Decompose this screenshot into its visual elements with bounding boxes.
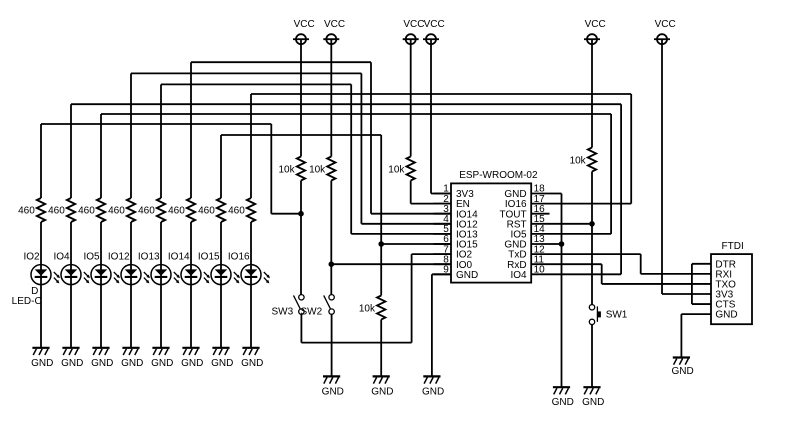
svg-text:SW2: SW2	[301, 306, 323, 317]
node IO5 label	[83, 252, 100, 263]
svg-text:ESP-WROOM-02: ESP-WROOM-02	[459, 170, 538, 181]
svg-text:10k: 10k	[359, 304, 376, 315]
wire: 10k down to RST node	[591, 172, 593, 224]
wire: FTDI GND to ground	[681, 314, 711, 357]
wire: LED to ground (IO5)	[100, 275, 102, 348]
svg-text:GND: GND	[371, 386, 393, 397]
pin 10 IO4 (right)	[510, 265, 549, 281]
wire: resistor to LED (IO13)	[160, 222, 162, 275]
FTDI pin RXI	[715, 269, 732, 280]
svg-text:10k: 10k	[309, 165, 326, 176]
wire: LED to ground (IO12)	[130, 275, 132, 348]
pin 14 IO5 (right)	[510, 224, 549, 240]
ground (below LED IO4)	[61, 348, 83, 369]
svg-text:GND: GND	[322, 386, 344, 397]
resistor 460 (IO12 column)	[108, 198, 135, 222]
svg-text:460: 460	[228, 205, 245, 216]
wire: IO2-LED bus (col1 to SW3 node) horizontal	[41, 123, 271, 125]
wire: IO16 bus (col8 to pin17) horizontal	[251, 93, 631, 95]
FTDI pin CTS	[715, 300, 735, 311]
wire: LED to ground (IO14)	[190, 275, 192, 348]
wire: VCC to 10k (RST)	[591, 39, 593, 147]
wire: IO0 node to pin 8	[331, 263, 451, 265]
svg-text:GND: GND	[211, 358, 233, 369]
svg-text:GND: GND	[181, 358, 203, 369]
wire: FTDI DTR-CTS jumper	[692, 264, 711, 304]
ground (below SW2)	[322, 376, 344, 397]
wire: IO15 node to pin 6	[381, 243, 451, 245]
wire: IO4 route right of IC down to pin 10	[550, 104, 622, 274]
switch SW1 (pushbutton)	[589, 305, 628, 325]
wire: 10k to pin 2 (EN)	[411, 181, 451, 204]
pin 1 3V3 (left)	[434, 184, 475, 200]
wire: resistor to LED (IO12)	[130, 222, 132, 275]
ground (below pin 9)	[422, 376, 444, 397]
power VCC (3V3 pin 1)	[423, 19, 445, 44]
resistor 10k pull-up (EN)	[388, 157, 415, 181]
wire: pin 11 RxD to FTDI TXO	[550, 264, 712, 284]
wire: LED to ground (IO2)	[40, 275, 42, 348]
junction: IO15 node at pin 6 row	[378, 241, 384, 247]
power VCC (RST pull-up)	[584, 19, 606, 44]
power VCC (EN pull-up)	[403, 19, 425, 44]
node IO4 label	[53, 252, 70, 263]
ground (below LED IO13)	[151, 348, 173, 369]
svg-text:GND: GND	[422, 386, 444, 397]
junction: IO0 node at pin 8 row	[329, 261, 335, 267]
wire: IO15 bus drop to pin 6	[380, 135, 382, 244]
wire: bus drop into LED column IO4	[70, 104, 72, 198]
svg-text:GND: GND	[91, 358, 113, 369]
svg-text:460: 460	[168, 205, 185, 216]
wire: IO12 bus (col4 to pin4) horizontal	[131, 72, 361, 74]
wire: bus drop into LED column IO2	[40, 124, 42, 198]
svg-text:IO14: IO14	[168, 252, 190, 263]
LED D designator and part name LED-C	[12, 286, 42, 307]
svg-text:IO2: IO2	[23, 252, 40, 263]
svg-text:LED-C: LED-C	[12, 296, 42, 307]
wire: resistor to LED (IO14)	[190, 222, 192, 275]
wire: pin 13 GND stub to junction	[550, 243, 562, 245]
svg-text:VCC: VCC	[585, 19, 606, 30]
resistor 460 (IO13 column)	[138, 198, 165, 222]
wire: IO16 route right of IC down to pin 17	[550, 94, 632, 204]
svg-text:10k: 10k	[278, 165, 295, 176]
wire: VCC to 10k pull-up (IO0)	[330, 39, 332, 156]
pin 6 IO15 (left)	[434, 234, 479, 250]
pin 7 IO2 (left)	[434, 244, 473, 260]
power VCC (pull-up for IO0)	[323, 19, 345, 44]
svg-text:460: 460	[18, 205, 35, 216]
pin 12 TxD (right)	[508, 244, 549, 260]
svg-text:GND: GND	[552, 397, 574, 408]
node IO16 label	[228, 252, 250, 263]
resistor 460 (IO2 column)	[18, 198, 45, 222]
pin 11 RxD (right)	[507, 254, 549, 270]
LED IO14	[181, 265, 210, 285]
ground (below LED IO2)	[31, 348, 53, 369]
pin 2 EN (left)	[434, 194, 470, 210]
wire: resistor to LED (IO5)	[100, 222, 102, 275]
pin 3 IO14 (left)	[434, 204, 479, 220]
ground (below LED IO15)	[211, 348, 233, 369]
svg-text:GND: GND	[241, 358, 263, 369]
ground (below LED IO12)	[121, 348, 143, 369]
wire: bus drop into LED column IO13	[160, 84, 162, 198]
svg-text:SW1: SW1	[606, 309, 628, 320]
svg-text:GND: GND	[151, 358, 173, 369]
wire: LED to ground (IO4)	[70, 275, 72, 348]
wire: SW2 bottom to ground	[331, 314, 333, 376]
wire: resistor to LED (IO2)	[40, 222, 42, 275]
wire: bus drop into LED column IO12	[130, 73, 132, 198]
wire: bus drop into LED column IO16	[250, 94, 252, 198]
resistor 10k pull-up (SW3 node)	[278, 157, 305, 181]
ground (below LED IO14)	[181, 348, 203, 369]
pin 4 IO12 (left)	[434, 214, 479, 230]
wire: SW3 node down to switch SW3	[300, 214, 302, 295]
wire: LED to ground (IO13)	[160, 275, 162, 348]
svg-text:GND: GND	[61, 358, 83, 369]
svg-text:GND: GND	[456, 270, 478, 281]
junction: RST node at pin 15 row	[589, 221, 595, 227]
wire: resistor to LED (IO16)	[250, 222, 252, 275]
wire: RST node to pin 15	[550, 223, 593, 225]
wire: IO14 vertical drop to pin 3	[371, 62, 451, 214]
FTDI pin TXO	[715, 280, 736, 291]
resistor 10k pull-up (IO0)	[309, 157, 335, 181]
ground (below FTDI)	[671, 358, 693, 378]
wire: IO2-LED bus drop to SW3 node	[271, 124, 301, 214]
resistor 460 (IO5 column)	[78, 198, 105, 222]
wire: bus drop into LED column IO14	[190, 62, 192, 198]
svg-text:GND: GND	[121, 358, 143, 369]
switch SW2	[301, 295, 335, 318]
pin 13 GND (right)	[504, 234, 549, 250]
junction: SW3 node	[298, 211, 304, 217]
wire: bus drop into LED column IO5	[100, 114, 102, 198]
wire: pin 9 GND down to ground	[432, 274, 451, 376]
LED IO16	[241, 265, 270, 285]
wire: LED to ground (IO16)	[250, 275, 252, 348]
svg-text:GND: GND	[582, 397, 604, 408]
wire: IO14 bus (col6 to pin3) horizontal	[191, 61, 371, 63]
svg-text:IO5: IO5	[83, 252, 100, 263]
svg-text:GND: GND	[31, 358, 53, 369]
wire: VCC to 10k (EN)	[410, 39, 412, 156]
wire: IO12 vertical drop to pin 4	[361, 73, 451, 223]
ground (below SW1)	[582, 387, 604, 408]
wire: RST node down to SW1	[591, 224, 593, 305]
svg-text:VCC: VCC	[424, 19, 445, 30]
svg-text:FTDI: FTDI	[722, 241, 744, 252]
wire: SW1 bottom to ground	[591, 325, 593, 388]
svg-text:IO12: IO12	[108, 252, 130, 263]
pin 16 TOUT (right)	[500, 204, 550, 220]
svg-text:460: 460	[138, 205, 155, 216]
node IO2 label	[23, 252, 40, 263]
svg-text:GND: GND	[671, 366, 693, 377]
connector FTDI body	[711, 241, 752, 324]
svg-text:VCC: VCC	[324, 19, 345, 30]
wire: resistor to LED (IO15)	[220, 222, 222, 275]
wire: IO13 vertical drop to pin 5	[351, 84, 451, 234]
LED IO12	[121, 265, 150, 285]
node IO13 label	[138, 252, 160, 263]
node IO12 label	[108, 252, 130, 263]
LED IO4	[61, 265, 90, 285]
pin 8 IO0 (left)	[434, 254, 473, 270]
svg-text:IO15: IO15	[198, 252, 220, 263]
resistor 460 (IO16 column)	[228, 198, 255, 222]
wire: IO13 bus (col5 to pin5) horizontal	[161, 83, 351, 85]
svg-text:VCC: VCC	[294, 19, 315, 30]
svg-text:IO4: IO4	[510, 270, 527, 281]
wire: SW3 bottom to pin 7 (IO2)	[301, 254, 451, 343]
wire: pin 18 GND down right side	[550, 194, 562, 388]
pin 9 GND (left)	[434, 265, 479, 281]
resistor 460 (IO14 column)	[168, 198, 195, 222]
svg-text:VCC: VCC	[655, 19, 676, 30]
LED IO13	[151, 265, 180, 285]
svg-text:10k: 10k	[388, 165, 405, 176]
resistor 10k pull-down (IO15)	[359, 296, 386, 320]
wire: IO15 node down to 10k pull-down	[380, 244, 382, 296]
wire: VCC to 10k pull-up (SW3 node)	[300, 39, 302, 156]
svg-text:SW3: SW3	[272, 306, 294, 317]
svg-text:IO4: IO4	[53, 252, 70, 263]
wire: VCC to pin 1 (3V3)	[431, 39, 451, 193]
resistor 460 (IO15 column)	[198, 198, 225, 222]
svg-text:460: 460	[78, 205, 95, 216]
wire: 10k pull-down to ground	[380, 320, 382, 377]
svg-text:460: 460	[108, 205, 125, 216]
ground (below LED IO5)	[91, 348, 113, 369]
LED IO5	[91, 265, 120, 285]
pin 15 RST (right)	[507, 214, 550, 230]
svg-text:GND: GND	[715, 310, 737, 321]
pin 17 IO16 (right)	[505, 194, 550, 210]
node IO14 label	[168, 252, 190, 263]
svg-text:IO13: IO13	[138, 252, 160, 263]
junction: pin 13 GND joins	[559, 241, 565, 247]
svg-text:460: 460	[198, 205, 215, 216]
FTDI pin DTR	[715, 259, 736, 270]
power VCC (pull-up for SW3 node)	[293, 19, 315, 44]
wire: bus drop into LED column IO15	[220, 135, 222, 198]
FTDI pin GND	[715, 310, 737, 321]
svg-text:10k: 10k	[570, 156, 587, 167]
wire: 10k to SW3 node	[300, 181, 302, 214]
wire: resistor to LED (IO4)	[70, 222, 72, 275]
svg-text:460: 460	[48, 205, 65, 216]
wire: IO5 route right of IC down to pin 14	[550, 114, 612, 234]
LED IO2	[31, 265, 60, 285]
wire: IO0 node down to switch SW2	[330, 264, 332, 294]
wire: IO5 bus (col3 to pin14) horizontal	[101, 113, 611, 115]
pin 5 IO13 (left)	[434, 224, 479, 240]
wire: VCC to FTDI 3V3	[662, 39, 711, 294]
svg-text:10: 10	[534, 265, 546, 276]
ground (below LED IO16)	[241, 348, 263, 369]
LED IO15	[211, 265, 240, 285]
pin 18 GND (right)	[504, 184, 549, 200]
wire: pin 12 TxD to FTDI RXI	[550, 254, 712, 274]
node IO15 label	[198, 252, 220, 263]
wire: IO4 bus (col2 to pin10) horizontal	[71, 103, 621, 105]
svg-text:IO16: IO16	[228, 252, 250, 263]
resistor 10k pull-up (RST)	[570, 148, 597, 172]
op-amp/IC U1 ESP-WROOM-02 body	[451, 170, 538, 282]
resistor 460 (IO4 column)	[48, 198, 75, 222]
FTDI pin 3V3	[715, 290, 733, 301]
wire: 10k down to IO0 node	[330, 181, 332, 265]
wire: LED to ground (IO15)	[220, 275, 222, 348]
wire: IO15 bus (col7 to pin6) horizontal	[221, 134, 381, 136]
power VCC (FTDI 3V3)	[654, 19, 676, 44]
ground (below IO15 pull-down)	[371, 376, 393, 397]
svg-text:VCC: VCC	[403, 19, 424, 30]
ground (ESP GND pins)	[552, 387, 574, 408]
switch SW3	[272, 295, 305, 318]
